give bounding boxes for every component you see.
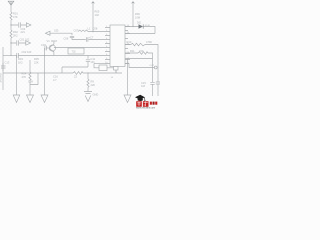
logo cap icon xyxy=(135,95,145,100)
svg-text:102: 102 xyxy=(25,38,30,42)
wire xyxy=(50,33,72,35)
node B junction xyxy=(10,42,11,43)
ground arrow 3 xyxy=(124,95,131,103)
svg-text:223: 223 xyxy=(139,49,144,53)
capacitor C02 xyxy=(17,53,19,58)
svg-text:47K: 47K xyxy=(22,75,27,79)
ground arrow 0 xyxy=(13,95,20,103)
node dots xyxy=(10,55,11,56)
resistor R02 xyxy=(10,30,12,38)
svg-text:C05: C05 xyxy=(54,30,59,33)
wire output staircase xyxy=(125,64,154,68)
resistor R11 xyxy=(138,52,148,55)
svg-text:D01: D01 xyxy=(137,21,142,24)
svg-text:2K2: 2K2 xyxy=(13,34,18,38)
wire pin line y33.5 xyxy=(125,33,155,35)
IC U1 xyxy=(110,25,125,67)
svg-text:PHONE: PHONE xyxy=(0,74,3,83)
svg-text:221: 221 xyxy=(21,30,26,34)
node VCC-R junction xyxy=(92,31,93,32)
svg-text:103: 103 xyxy=(27,50,32,54)
capacitor C13 on rail xyxy=(1,63,6,71)
logo small chars xyxy=(150,102,152,105)
filter F1 box xyxy=(68,48,84,54)
wire xyxy=(11,42,26,44)
arrow net out xyxy=(26,23,31,27)
svg-text:4.7: 4.7 xyxy=(53,78,57,82)
svg-text:OUT: OUT xyxy=(150,65,155,67)
wire xyxy=(11,24,27,26)
capacitor C01 xyxy=(17,40,19,45)
labels xyxy=(0,10,155,97)
IC pin numbers left xyxy=(105,25,130,64)
wire pin1 line xyxy=(88,31,105,33)
arrow net in xyxy=(45,31,50,35)
svg-text:R9: R9 xyxy=(91,80,95,84)
wire pin line y53.5 with resistor R11 xyxy=(125,53,153,82)
capacitor C04 xyxy=(19,22,21,27)
logo red char 1 xyxy=(136,100,142,107)
capacitor C14 xyxy=(156,81,160,96)
wire diode line xyxy=(125,27,155,34)
wire vertical x16 xyxy=(16,56,18,96)
svg-text:47K: 47K xyxy=(13,15,18,19)
wire x88 down xyxy=(87,73,89,79)
resistor R09 xyxy=(87,79,89,87)
svg-text:10M: 10M xyxy=(135,15,140,19)
svg-text:+C7: +C7 xyxy=(89,36,94,40)
capacitor C11 bridge xyxy=(86,56,90,68)
wire vertical x44.5 xyxy=(44,48,46,95)
node junction xyxy=(132,26,133,27)
svg-text:T02: T02 xyxy=(72,51,77,54)
wire xyxy=(3,55,16,57)
svg-text:R04: R04 xyxy=(22,72,27,76)
wire pin4 line xyxy=(94,63,105,65)
svg-text:22K: 22K xyxy=(34,60,39,64)
capacitor C07 xyxy=(70,36,74,37)
terminal circle xyxy=(154,66,157,69)
wire vertical x30 xyxy=(29,60,31,72)
svg-text:102: 102 xyxy=(95,13,100,17)
wire xyxy=(29,80,31,95)
svg-text:R11: R11 xyxy=(130,49,135,53)
logo red char 2 xyxy=(143,101,149,107)
svg-text:C08: C08 xyxy=(93,26,98,30)
resistor R01 xyxy=(10,12,12,20)
crystal B1 box xyxy=(94,64,99,68)
svg-text:9018: 9018 xyxy=(51,39,57,43)
svg-text:C03: C03 xyxy=(41,43,46,47)
ground arrow 2 xyxy=(41,95,48,103)
svg-text:C06: C06 xyxy=(64,37,69,41)
svg-text:V1: V1 xyxy=(47,39,51,43)
inductor L01 xyxy=(78,30,88,32)
svg-text:GND: GND xyxy=(93,93,99,97)
svg-text:R02: R02 xyxy=(13,30,18,34)
capacitor C03 xyxy=(45,46,47,51)
svg-text:C07: C07 xyxy=(74,29,79,33)
wire xyxy=(87,87,89,91)
resistor R04 xyxy=(29,72,31,80)
VCC symbol 2 xyxy=(132,4,134,27)
node A junction xyxy=(10,24,11,25)
resistor R10 xyxy=(131,43,145,46)
wire xyxy=(10,38,12,56)
diode VD1 xyxy=(139,24,144,28)
wire jog to x38 xyxy=(30,73,38,85)
svg-text:1K2: 1K2 xyxy=(18,60,23,64)
wire audio bus xyxy=(18,55,105,57)
IC right pin stubs xyxy=(125,27,130,64)
svg-text:470K: 470K xyxy=(146,40,152,44)
ground GND symbol xyxy=(84,92,92,102)
wire long bus y73 xyxy=(3,72,122,74)
wire pin to ground arrow xyxy=(125,59,153,96)
capacitor C15 xyxy=(150,82,154,96)
resistor R12 in bus xyxy=(73,72,83,75)
IC left pin stubs xyxy=(105,28,110,64)
logo elecfans xyxy=(135,95,157,110)
IC bottom notch xyxy=(114,67,119,71)
wire xyxy=(10,20,12,30)
svg-text:104: 104 xyxy=(91,61,96,64)
wire pin line y44.5 with resistor R10 xyxy=(125,45,158,82)
svg-text:www.elecfans.com: www.elecfans.com xyxy=(136,108,155,110)
wire xyxy=(72,38,105,40)
svg-text:4148: 4148 xyxy=(145,25,151,27)
wire loop y67 xyxy=(62,67,88,73)
VCC symbol 1 xyxy=(92,4,94,32)
wire collector to pin3 line xyxy=(54,47,105,49)
wire base xyxy=(46,47,50,49)
svg-text:R01: R01 xyxy=(13,12,18,16)
svg-text:C09: C09 xyxy=(28,80,33,84)
left rail J1 xyxy=(2,47,4,90)
svg-text:103: 103 xyxy=(141,85,146,88)
wire antenna stem xyxy=(10,5,12,12)
svg-text:C13: C13 xyxy=(5,61,10,65)
transistor V1 xyxy=(49,45,55,51)
capacitor C06 polar xyxy=(87,37,88,41)
antenna ANT1 xyxy=(8,1,14,5)
svg-text:22K: 22K xyxy=(91,83,96,87)
ground arrow 1 xyxy=(27,95,34,103)
arrow net out xyxy=(26,41,31,45)
background xyxy=(0,0,160,110)
